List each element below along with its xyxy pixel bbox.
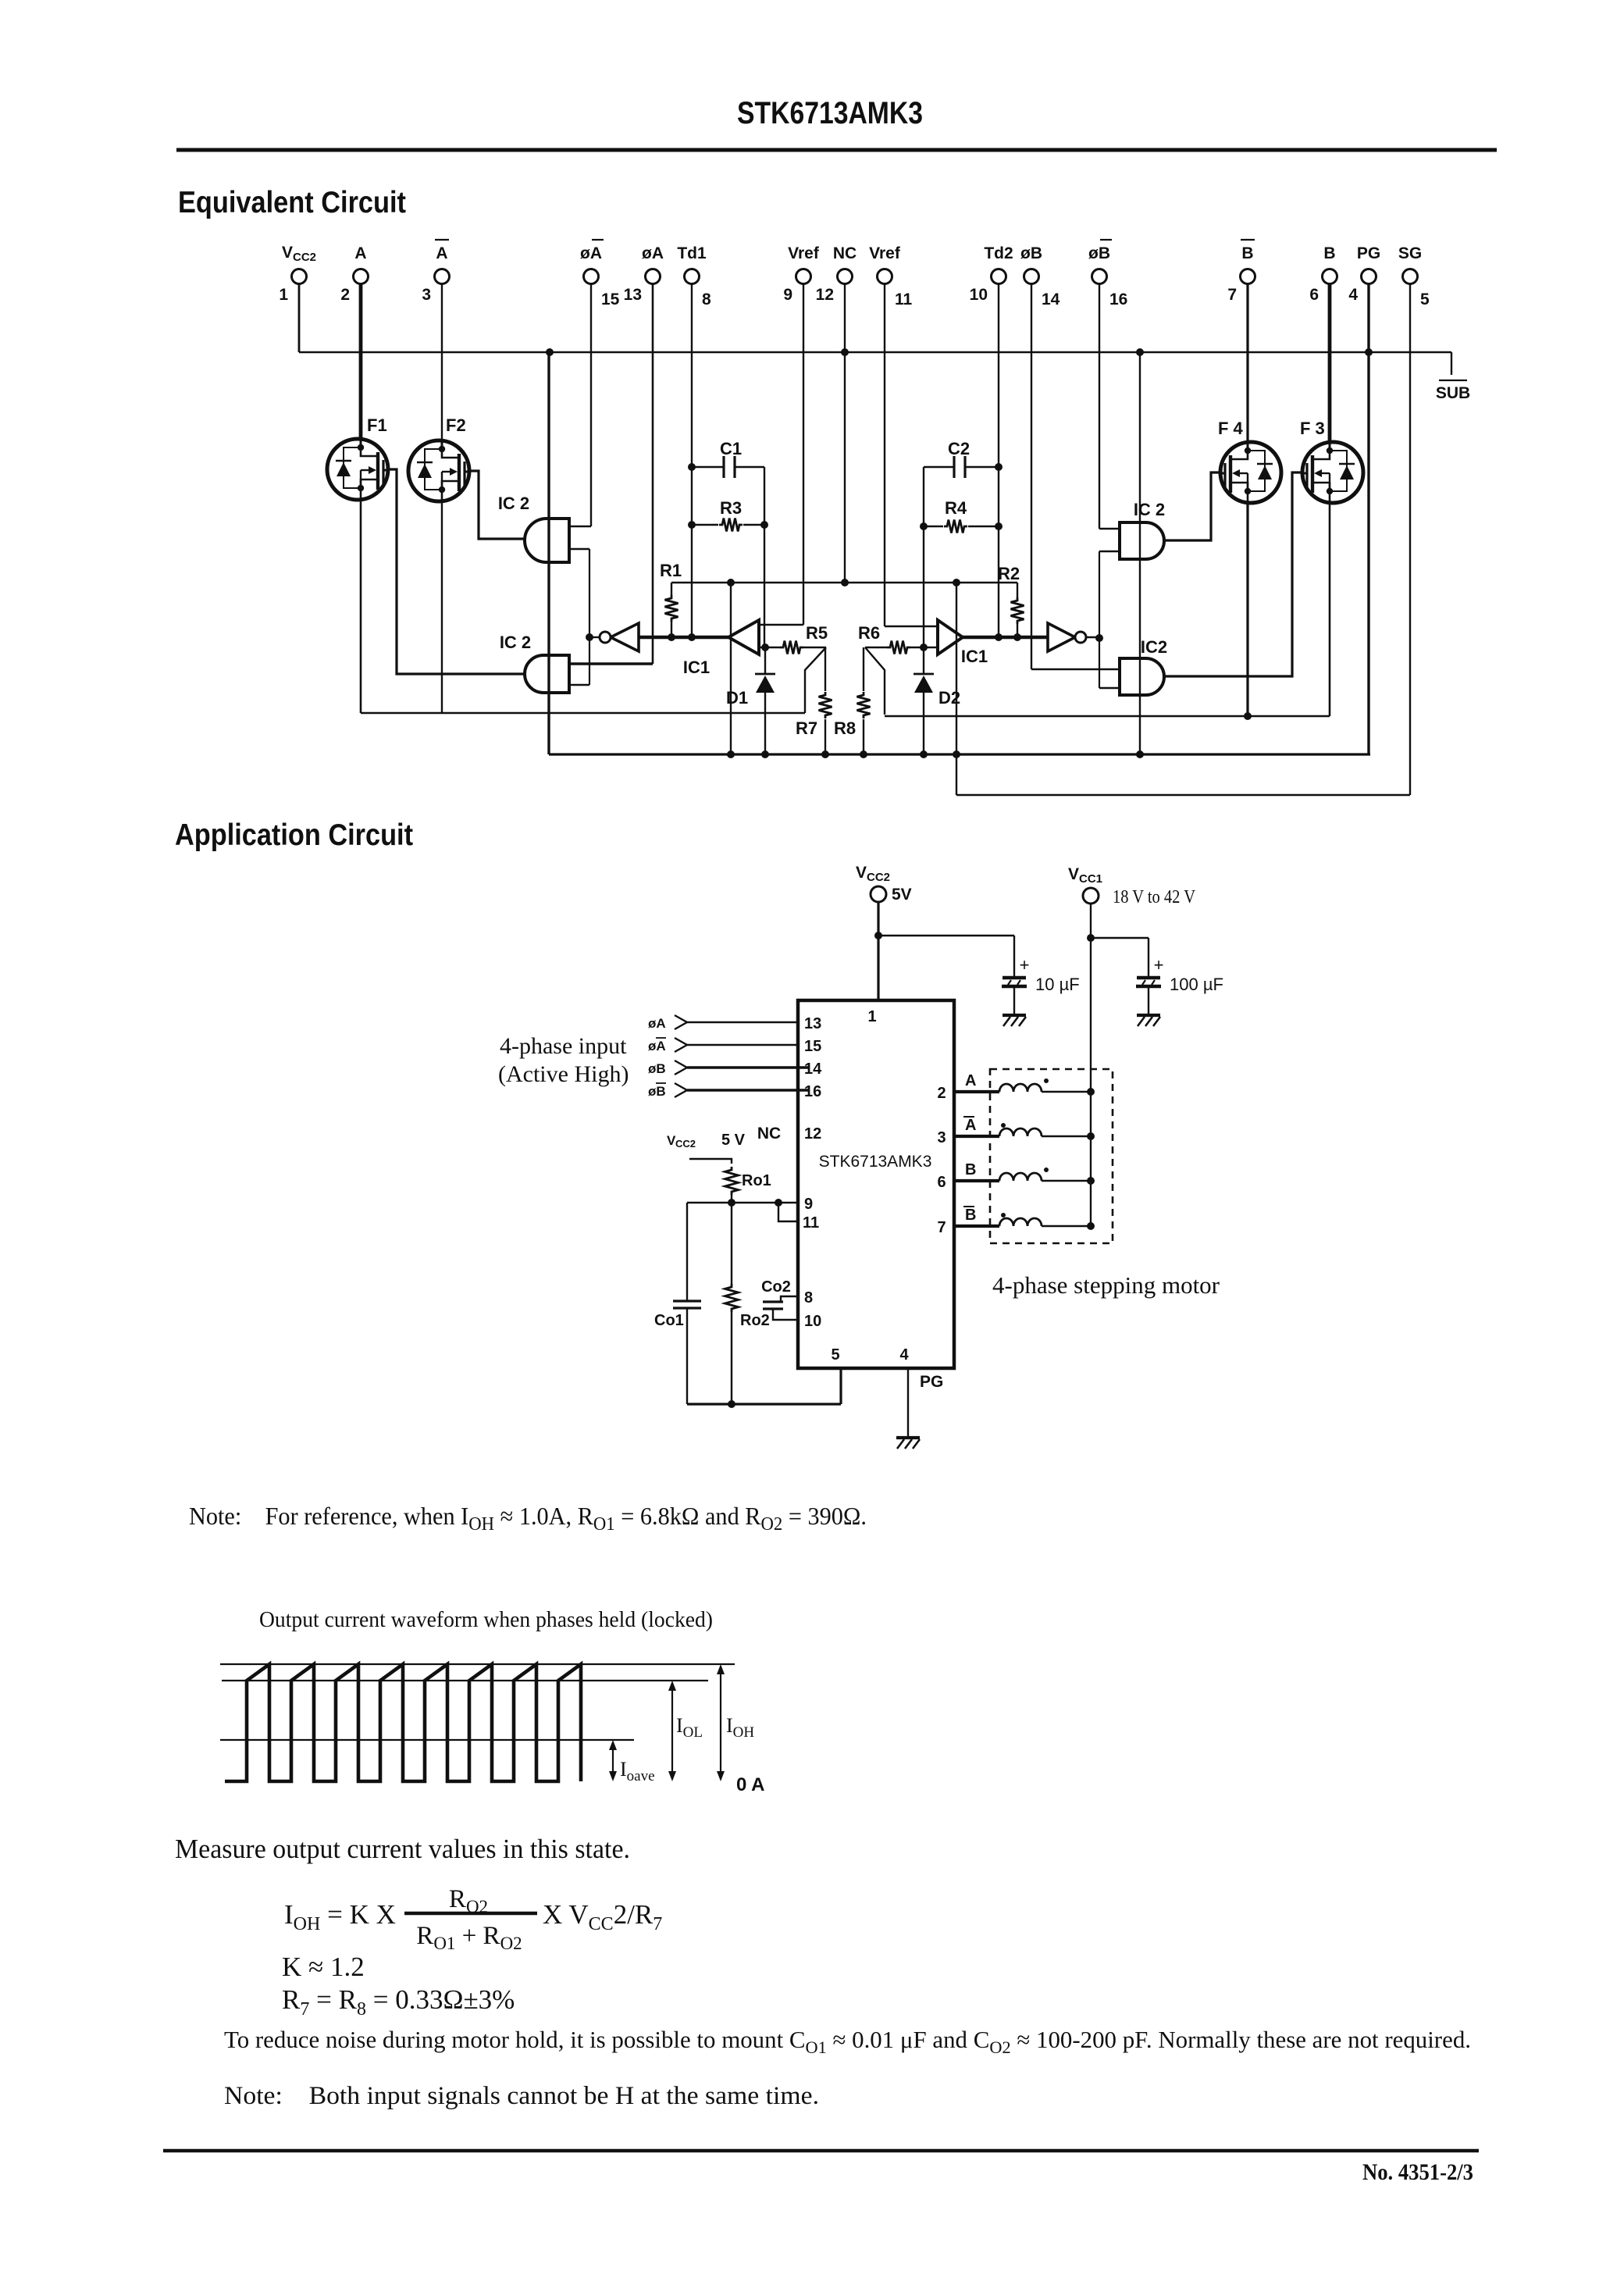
svg-text:STK6713AMK3: STK6713AMK3 <box>819 1153 932 1171</box>
svg-text:R2: R2 <box>998 564 1020 583</box>
winding polarity dots <box>1044 1078 1049 1083</box>
svg-text:11: 11 <box>803 1214 819 1232</box>
dimension arrow IOH <box>720 1667 721 1779</box>
svg-text:V: V <box>856 864 867 882</box>
pin 11 terminal Vref <box>878 269 892 284</box>
dimension arrow IOL <box>671 1683 673 1779</box>
svg-text:PG: PG <box>1357 244 1380 262</box>
diode D1 <box>764 647 766 674</box>
svg-text:CC2: CC2 <box>293 251 316 264</box>
resistor Ro2 <box>731 1203 732 1285</box>
svg-text:14: 14 <box>804 1061 822 1078</box>
wire pin16 phase-B-bar down to gate G3 input <box>1099 284 1100 529</box>
svg-text:C2: C2 <box>948 439 970 458</box>
svg-text:(Active High): (Active High) <box>498 1061 629 1087</box>
svg-text:SG: SG <box>1398 244 1422 262</box>
svg-text:+: + <box>1020 955 1030 975</box>
gate G4 input stub from inverter node <box>1099 687 1120 690</box>
wire VCC1 down to motor common <box>1090 904 1092 1226</box>
svg-text:SUB: SUB <box>1436 384 1470 402</box>
wire pin9 Vref down to amp IC1a input <box>803 284 804 625</box>
junction R8 bottom rail <box>860 750 867 758</box>
terminal VCC2 5V <box>871 886 886 902</box>
svg-text:R6: R6 <box>858 623 880 643</box>
svg-text:IC1: IC1 <box>961 647 988 666</box>
wire C1/R3 right leg down to D1 node <box>764 467 765 647</box>
svg-text:1: 1 <box>279 286 288 304</box>
svg-text:Output current waveform when p: Output current waveform when phases held… <box>259 1608 713 1632</box>
svg-text:øB: øB <box>648 1061 666 1076</box>
wire amp IC1a lower input <box>759 647 781 648</box>
pin 16 terminal øB <box>1092 269 1107 284</box>
svg-text:13: 13 <box>804 1015 821 1032</box>
wire gate G4 output to F3 gate <box>1164 472 1302 676</box>
resistor R8 <box>863 647 864 691</box>
wire pin2 A to F1 drain <box>359 284 363 440</box>
wire branch to pin 11 <box>778 1203 798 1221</box>
svg-text:5V: 5V <box>892 886 912 904</box>
amp IC1 left <box>728 620 759 654</box>
wire pin13 phase-A down to gate G2 input <box>652 284 654 664</box>
svg-text:7: 7 <box>937 1219 946 1236</box>
gate IC2 G1 (top left AND) <box>525 519 569 562</box>
junction node row x1225 <box>953 579 960 586</box>
wire inverter output to node x1408 <box>1086 636 1099 638</box>
resistor R2 <box>1017 583 1018 597</box>
pin 13 terminal øA <box>646 269 661 284</box>
svg-text:Co2: Co2 <box>761 1278 791 1296</box>
svg-text:Co1: Co1 <box>654 1312 684 1329</box>
junction R1 bottom <box>668 633 675 641</box>
svg-text:R5: R5 <box>806 623 828 643</box>
junction R2 bottom <box>1013 633 1021 641</box>
ground PG <box>896 1436 920 1439</box>
wire inverter input from amp IC1a <box>639 636 728 640</box>
svg-text:Application Circuit: Application Circuit <box>175 818 413 852</box>
svg-text:K ≈ 1.2: K ≈ 1.2 <box>282 1952 365 1982</box>
svg-text:10: 10 <box>804 1313 821 1330</box>
svg-text:Td2: Td2 <box>984 244 1013 262</box>
junction inverter output node <box>586 633 593 641</box>
svg-text:PG: PG <box>920 1373 943 1391</box>
junction D2 bottom rail <box>920 750 928 758</box>
wire VCC2 to Ro1 <box>689 1159 732 1164</box>
junction D1 bottom rail <box>761 750 769 758</box>
through wire left column <box>547 352 550 754</box>
resistor R7 <box>824 647 826 691</box>
svg-text:F 4: F 4 <box>1218 419 1244 438</box>
wire VCC2 down to pin1 <box>877 903 879 1000</box>
junction D1 top <box>761 643 769 651</box>
svg-text:Measure output current values: Measure output current values in this st… <box>175 1834 630 1864</box>
wire SG return path <box>956 794 1410 796</box>
resistor R1 <box>671 583 672 595</box>
wire F1 source down to left source rail <box>360 500 362 713</box>
svg-text:A: A <box>436 244 447 262</box>
gate G1 input stub from phase-A-bar <box>569 526 591 528</box>
resistor R5 <box>780 641 803 654</box>
wire pin5 SG down <box>1409 284 1411 795</box>
svg-text:øA: øA <box>642 244 664 262</box>
svg-text:9: 9 <box>783 286 792 304</box>
through wire right column <box>1139 352 1141 754</box>
junction x936 bottom rail <box>727 750 735 758</box>
svg-text:A: A <box>354 244 366 262</box>
svg-text:15: 15 <box>601 291 620 308</box>
svg-text:4: 4 <box>899 1346 909 1364</box>
ground below 100uF <box>1137 1014 1160 1017</box>
junction VCC1 node <box>1087 934 1095 942</box>
svg-text:B: B <box>965 1161 976 1178</box>
gate G2 input stub from phase-A <box>569 662 653 665</box>
waveform average level line <box>220 1739 634 1741</box>
transistor F4 <box>1220 442 1281 503</box>
capacitor C1 <box>692 466 724 468</box>
wire amp IC1a upper input to Vref9 <box>759 624 803 626</box>
wire F4 source down to right source rail <box>1246 504 1248 716</box>
svg-text:Note: Both input signals cann: Note: Both input signals cannot be H at … <box>224 2082 819 2110</box>
svg-text:IC1: IC1 <box>683 658 710 677</box>
wire pin11 Vref down to amp IC1b input <box>884 284 885 626</box>
wire R5 corner bend to source rail <box>805 647 826 713</box>
svg-text:NC: NC <box>757 1125 781 1143</box>
svg-text:R1: R1 <box>660 561 682 580</box>
svg-text:IC 2: IC 2 <box>1134 500 1165 519</box>
wire amp IC1b output to inverter right <box>963 636 1048 640</box>
gate G2 input stub to inverter node <box>569 684 589 686</box>
junction node row x1082 <box>841 579 849 586</box>
resistor R3 <box>692 524 718 526</box>
junction on rail at x1753 <box>1365 348 1373 356</box>
svg-text:B: B <box>965 1207 976 1224</box>
junction R7 bottom rail <box>821 750 829 758</box>
svg-text:V: V <box>282 244 293 262</box>
gate IC2 G4 (bottom right AND) <box>1120 658 1164 695</box>
wire pin4 to PG ground <box>907 1368 909 1438</box>
svg-text:+: + <box>1154 955 1164 975</box>
svg-text:øA: øA <box>648 1039 666 1053</box>
svg-text:øB: øB <box>1088 244 1110 262</box>
wire F2 source down <box>441 501 443 713</box>
svg-text:R7 = R8 = 0.33Ω±3%: R7 = R8 = 0.33Ω±3% <box>282 1984 515 2020</box>
pin 14 terminal øB <box>1024 269 1039 284</box>
svg-text:18 V to 42 V: 18 V to 42 V <box>1113 887 1196 907</box>
junction on rail at x1082 <box>841 348 849 356</box>
pin 12 terminal NC <box>838 269 853 284</box>
junction x1225 bottom rail <box>953 750 960 758</box>
wire F2 gate to gate G1 output <box>470 471 524 539</box>
svg-text:4-phase stepping motor: 4-phase stepping motor <box>992 1271 1220 1299</box>
wire pin14 phase-B down <box>1031 284 1032 669</box>
svg-text:R7: R7 <box>796 718 817 738</box>
svg-text:15: 15 <box>804 1038 821 1055</box>
svg-text:IC 2: IC 2 <box>498 494 529 513</box>
waveform square wave <box>225 1664 581 1781</box>
waveform IOL level line <box>222 1680 708 1681</box>
junction Td1 at amp line <box>688 633 696 641</box>
svg-text:R4: R4 <box>945 498 967 518</box>
svg-text:2: 2 <box>937 1085 946 1102</box>
wire pin5 to bottom return <box>839 1368 842 1404</box>
svg-text:0 A: 0 A <box>736 1774 764 1795</box>
wire pin3 A-bar to F2 drain <box>441 284 443 441</box>
right source rail <box>885 715 1330 718</box>
svg-text:øA: øA <box>648 1016 666 1031</box>
wire inverter branch vertical <box>589 549 590 685</box>
junction F4 source rail <box>1244 712 1252 720</box>
svg-text:R3: R3 <box>720 498 742 518</box>
pin 1 terminal Vcc2 <box>292 269 307 284</box>
gate G1 input stub to inverter node <box>569 548 589 551</box>
gate IC2 G3 (top right AND) <box>1120 522 1164 559</box>
svg-text:øB: øB <box>1020 244 1042 262</box>
wire to pin 9 <box>687 1202 798 1203</box>
gate IC2 G2 (bottom left AND) <box>525 655 569 693</box>
wire VCC1 node to 100uF <box>1091 937 1149 939</box>
svg-text:B: B <box>1241 244 1253 262</box>
wire Co1 branch down <box>686 1203 688 1301</box>
wire x936 down to bottom rail <box>730 583 732 754</box>
capacitor 100uF <box>1148 938 1149 976</box>
left source rail <box>361 712 805 715</box>
resistor R6 <box>887 641 910 654</box>
svg-text:R8: R8 <box>834 718 856 738</box>
wire pin8 Td1 down <box>691 284 693 637</box>
motor dashed box <box>990 1069 1113 1243</box>
pin 15 terminal øA <box>584 269 599 284</box>
capacitor 10uF <box>1013 936 1015 976</box>
junction Ro1 bottom <box>728 1199 735 1207</box>
IC box STK6713AMK3 <box>798 1000 954 1368</box>
node row wire <box>671 582 1017 583</box>
junction on rail at x1460 <box>1136 348 1144 356</box>
svg-text:13: 13 <box>624 286 642 304</box>
node SUB label <box>1439 380 1467 381</box>
pin 3 terminal A <box>435 269 450 284</box>
svg-text:A: A <box>965 1117 976 1134</box>
svg-text:Vref: Vref <box>788 244 820 262</box>
pin 8 terminal Td1 <box>685 269 700 284</box>
transistor F3 <box>1302 442 1363 503</box>
junction inverter-right output node <box>1095 634 1103 642</box>
header rule <box>176 148 1497 152</box>
Vcc2 supply rail <box>299 351 1451 353</box>
wire Vcc2 pin1 to rail <box>298 284 301 352</box>
svg-text:Td1: Td1 <box>677 244 707 262</box>
svg-text:To reduce noise during motor h: To reduce noise during motor hold, it is… <box>224 2027 1471 2057</box>
pin 7 terminal B <box>1241 269 1255 284</box>
wire pin6 B to F3 drain <box>1328 284 1332 444</box>
svg-text:øA: øA <box>580 244 602 262</box>
wire node column x1225 <box>956 583 957 795</box>
dimension arrow I oave <box>612 1742 614 1779</box>
svg-text:NC: NC <box>833 244 857 262</box>
svg-text:A: A <box>965 1072 976 1089</box>
svg-text:IC2: IC2 <box>1141 637 1167 657</box>
svg-text:F 3: F 3 <box>1300 419 1325 438</box>
svg-text:D1: D1 <box>726 688 748 708</box>
wire pin10 Td2 down <box>998 284 999 637</box>
wire amp IC1b lower input <box>865 647 887 648</box>
svg-text:4: 4 <box>1348 286 1358 304</box>
pin 2 terminal A <box>354 269 369 284</box>
wire inverter output to node <box>589 636 600 638</box>
pin 6 terminal B <box>1323 269 1337 284</box>
svg-text:øB: øB <box>648 1084 666 1099</box>
gate G3 input stub from inverter node <box>1099 551 1120 553</box>
junction pin9/11 branch <box>775 1199 782 1207</box>
wire pin4 PG down <box>1367 284 1369 754</box>
wire C2/R4 left leg down to D2 node <box>923 467 924 647</box>
svg-text:5 V: 5 V <box>721 1132 746 1149</box>
wire amp IC1b upper input to Vref11 <box>885 626 938 627</box>
ground below 10uF <box>1003 1014 1026 1017</box>
resistor R4 <box>924 526 943 527</box>
svg-text:Ro1: Ro1 <box>742 1172 771 1189</box>
svg-text:Equivalent Circuit: Equivalent Circuit <box>178 186 406 219</box>
footer rule <box>163 2149 1479 2153</box>
svg-text:7: 7 <box>1227 286 1237 304</box>
junction D2 top <box>920 643 928 651</box>
gate G4 input stub from phase-B <box>1031 668 1120 671</box>
svg-text:6: 6 <box>937 1174 946 1191</box>
wire gate G3 output to F4 gate <box>1164 472 1220 540</box>
svg-text:100 µF: 100 µF <box>1170 975 1223 994</box>
wire pin15 phase-A-bar down to gate G1 input <box>590 284 592 526</box>
wire inverter branch vertical right <box>1099 551 1100 688</box>
svg-text:1: 1 <box>867 1008 876 1025</box>
svg-text:8: 8 <box>804 1289 813 1307</box>
junction right column bottom rail <box>1136 750 1144 758</box>
svg-text:F2: F2 <box>446 415 466 435</box>
amp IC1 right <box>938 620 963 654</box>
wire F3 source down to right source rail <box>1329 504 1331 716</box>
inverter IC1 left <box>611 623 639 651</box>
capacitor Co1 <box>673 1299 701 1302</box>
svg-text:STK6713AMK3: STK6713AMK3 <box>737 96 923 130</box>
svg-text:4-phase input: 4-phase input <box>500 1033 627 1059</box>
pin 9 terminal Vref <box>796 269 811 284</box>
svg-text:3: 3 <box>422 286 431 304</box>
gate G3 input stub from phase-B-bar <box>1099 528 1120 530</box>
svg-text:CC2: CC2 <box>867 871 890 884</box>
svg-text:9: 9 <box>804 1196 813 1213</box>
wire pin7 B-bar to F4 drain <box>1246 284 1248 444</box>
svg-text:B: B <box>1323 244 1335 262</box>
svg-text:12: 12 <box>816 286 834 304</box>
wire R6 corner bend to right source rail <box>865 647 885 715</box>
wire VCC2 node to 10uF <box>878 935 1014 936</box>
svg-text:11: 11 <box>895 291 913 308</box>
svg-text:Vref: Vref <box>869 244 901 262</box>
svg-text:16: 16 <box>1109 291 1127 308</box>
svg-text:No. 4351-2/3: No. 4351-2/3 <box>1362 2159 1473 2185</box>
svg-text:5: 5 <box>1420 291 1430 308</box>
junction on rail at x704 <box>546 348 554 356</box>
resistor Ro1 <box>725 1167 739 1195</box>
junction Ro2 bottom <box>728 1400 735 1408</box>
transistor F1 <box>327 439 388 500</box>
svg-text:10: 10 <box>970 286 988 304</box>
terminal VCC1 18V-42V <box>1083 888 1099 904</box>
capacitor C2 <box>923 466 924 468</box>
inverter IC1 right side <box>1048 623 1075 651</box>
svg-text:14: 14 <box>1042 291 1060 308</box>
transistor F2 <box>408 440 469 501</box>
bottom rail <box>549 753 1370 755</box>
bottom return wire <box>687 1403 841 1405</box>
svg-text:V: V <box>1068 865 1079 883</box>
pin 5 terminal SG <box>1403 269 1418 284</box>
svg-text:12: 12 <box>804 1125 821 1143</box>
svg-text:CC1: CC1 <box>1079 872 1102 886</box>
svg-text:C1: C1 <box>720 439 742 458</box>
wire F1 gate to gate G2 output <box>389 469 524 674</box>
pin 10 terminal Td2 <box>992 269 1006 284</box>
svg-text:10 µF: 10 µF <box>1035 975 1080 994</box>
wire pin12 vertical to node row <box>844 284 846 583</box>
waveform top level line <box>220 1663 735 1665</box>
svg-text:Ro2: Ro2 <box>740 1312 770 1329</box>
svg-text:16: 16 <box>804 1083 821 1100</box>
pin 4 terminal PG <box>1362 269 1376 284</box>
svg-text:8: 8 <box>702 291 711 308</box>
wire SUB stub <box>1451 352 1452 375</box>
diode D2 <box>923 647 924 674</box>
svg-text:IC 2: IC 2 <box>500 633 531 652</box>
svg-text:5: 5 <box>831 1346 839 1364</box>
junction VCC2 node <box>874 932 882 939</box>
svg-text:CC2: CC2 <box>675 1138 696 1150</box>
junction node row x936 <box>727 579 735 586</box>
svg-text:2: 2 <box>340 286 350 304</box>
svg-text:F1: F1 <box>367 415 387 435</box>
junction Td2 at amp line <box>995 633 1003 641</box>
svg-text:6: 6 <box>1309 286 1319 304</box>
svg-text:3: 3 <box>937 1129 946 1146</box>
